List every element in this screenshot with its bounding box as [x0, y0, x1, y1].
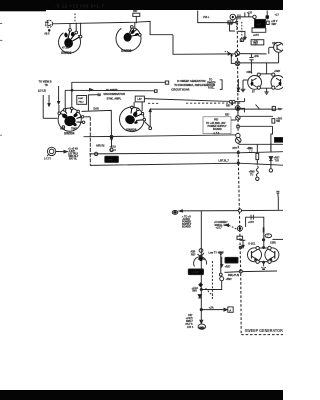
- svg-text:Low T? +5M?: Low T? +5M?: [209, 251, 225, 254]
- svg-text:+5M?: +5M?: [274, 70, 281, 73]
- svg-text:-5·12 +15 (4)| 5+1-7: -5·12 +15 (4)| 5+1-7: [55, 4, 104, 9]
- svg-text:R5?: R5?: [233, 147, 238, 150]
- svg-text:IC SWEEP GENERATOR: IC SWEEP GENERATOR: [177, 80, 206, 83]
- svg-text:SW626: SW626: [126, 128, 137, 132]
- svg-text:5M?: 5M?: [192, 290, 197, 293]
- svg-text:L5? 4: L5? 4: [187, 326, 194, 329]
- svg-text:F5?: F5?: [254, 43, 259, 46]
- svg-text:R5?: R5?: [225, 114, 230, 117]
- svg-text:L5?: L5?: [257, 23, 262, 26]
- svg-text:5M?: 5M?: [272, 23, 277, 26]
- svg-text:+L5.8: +L5.8: [110, 145, 117, 148]
- svg-text:TO DISCRIMINA, AMPLIFIER: TO DISCRIMINA, AMPLIFIER: [174, 84, 208, 87]
- svg-text:P.GE..: P.GE..: [208, 87, 215, 90]
- svg-text:(L5 L5): (L5 L5): [38, 90, 46, 93]
- svg-text:TO SWEEP: TO SWEEP: [106, 89, 118, 91]
- svg-text:BOARD: BOARD: [213, 128, 222, 131]
- svg-text:P5L?: P5L?: [79, 101, 85, 103]
- svg-text:SW503: SW503: [61, 51, 72, 55]
- svg-text:47 167: 47 167: [62, 47, 70, 50]
- svg-text:+5M?: +5M?: [226, 278, 233, 281]
- svg-text:TU?: TU?: [275, 160, 280, 163]
- svg-text:L5?: L5?: [138, 98, 143, 101]
- svg-text:R5?: R5?: [191, 253, 196, 256]
- svg-text:A/10: A/10: [60, 128, 66, 131]
- svg-text:L5 R5?: L5 R5?: [192, 271, 201, 274]
- svg-text:75M?: 75M?: [71, 128, 78, 131]
- svg-text:Q3?: Q3?: [272, 42, 277, 45]
- svg-text:+C5?: +C5?: [253, 34, 259, 37]
- svg-text:CIRCUIT BOAR: CIRCUIT BOAR: [171, 89, 189, 92]
- svg-text:L5A?: L5A?: [78, 97, 84, 100]
- svg-text:+.5A: +.5A: [209, 306, 214, 309]
- svg-text:5A? 5L: 5A? 5L: [69, 158, 78, 161]
- svg-text:SW505: SW505: [121, 49, 132, 53]
- svg-text:DISCRIMINATOR: DISCRIMINATOR: [104, 92, 125, 96]
- svg-text:TB: TB: [45, 84, 48, 87]
- svg-text:1-7.7?: 1-7.7?: [44, 157, 51, 160]
- svg-text:+15v: +15v: [254, 55, 260, 58]
- svg-text:V13 L: V13 L: [203, 16, 210, 19]
- svg-text:A: A: [229, 308, 231, 312]
- svg-text:C20U: C20U: [270, 242, 276, 245]
- svg-text:L5R5: L5R5: [107, 160, 113, 162]
- svg-text:+L?: +L?: [275, 13, 280, 16]
- svg-text:TO VIEW B: TO VIEW B: [39, 81, 52, 84]
- svg-text:+L5?: +L5?: [247, 12, 253, 15]
- svg-text:R57: R57: [133, 10, 138, 13]
- svg-text:GND: GND: [200, 327, 205, 329]
- svg-text:+C5?: +C5?: [248, 221, 254, 224]
- svg-text:DM(+YL5): DM(+YL5): [228, 274, 239, 277]
- svg-text:BOARD: BOARD: [182, 226, 191, 229]
- svg-text:DAR: DAR: [94, 107, 99, 110]
- svg-text:SW504: SW504: [64, 132, 75, 136]
- svg-text:SWEEP GENERATOR: SWEEP GENERATOR: [245, 328, 283, 333]
- svg-text:R5?: R5?: [226, 105, 231, 108]
- svg-text:A5R R2: A5R R2: [96, 145, 105, 148]
- svg-text:+5M?: +5M?: [276, 108, 283, 111]
- svg-text:L5/7.5L.7: L5/7.5L.7: [219, 160, 230, 163]
- svg-text:SYNC. AMPL: SYNC. AMPL: [107, 97, 122, 100]
- svg-text:LA.5: LA.5: [111, 149, 117, 152]
- svg-text:0R5L: 0R5L: [247, 71, 253, 74]
- svg-text:+L5.7: +L5.7: [216, 227, 223, 230]
- svg-text:+R5?: +R5?: [225, 266, 231, 269]
- svg-text:Bl: Bl: [98, 93, 102, 97]
- svg-text:(4) 5: (4) 5: [45, 32, 51, 35]
- svg-text:TU: TU: [250, 173, 253, 176]
- svg-text:O-2C1: O-2C1: [248, 243, 256, 246]
